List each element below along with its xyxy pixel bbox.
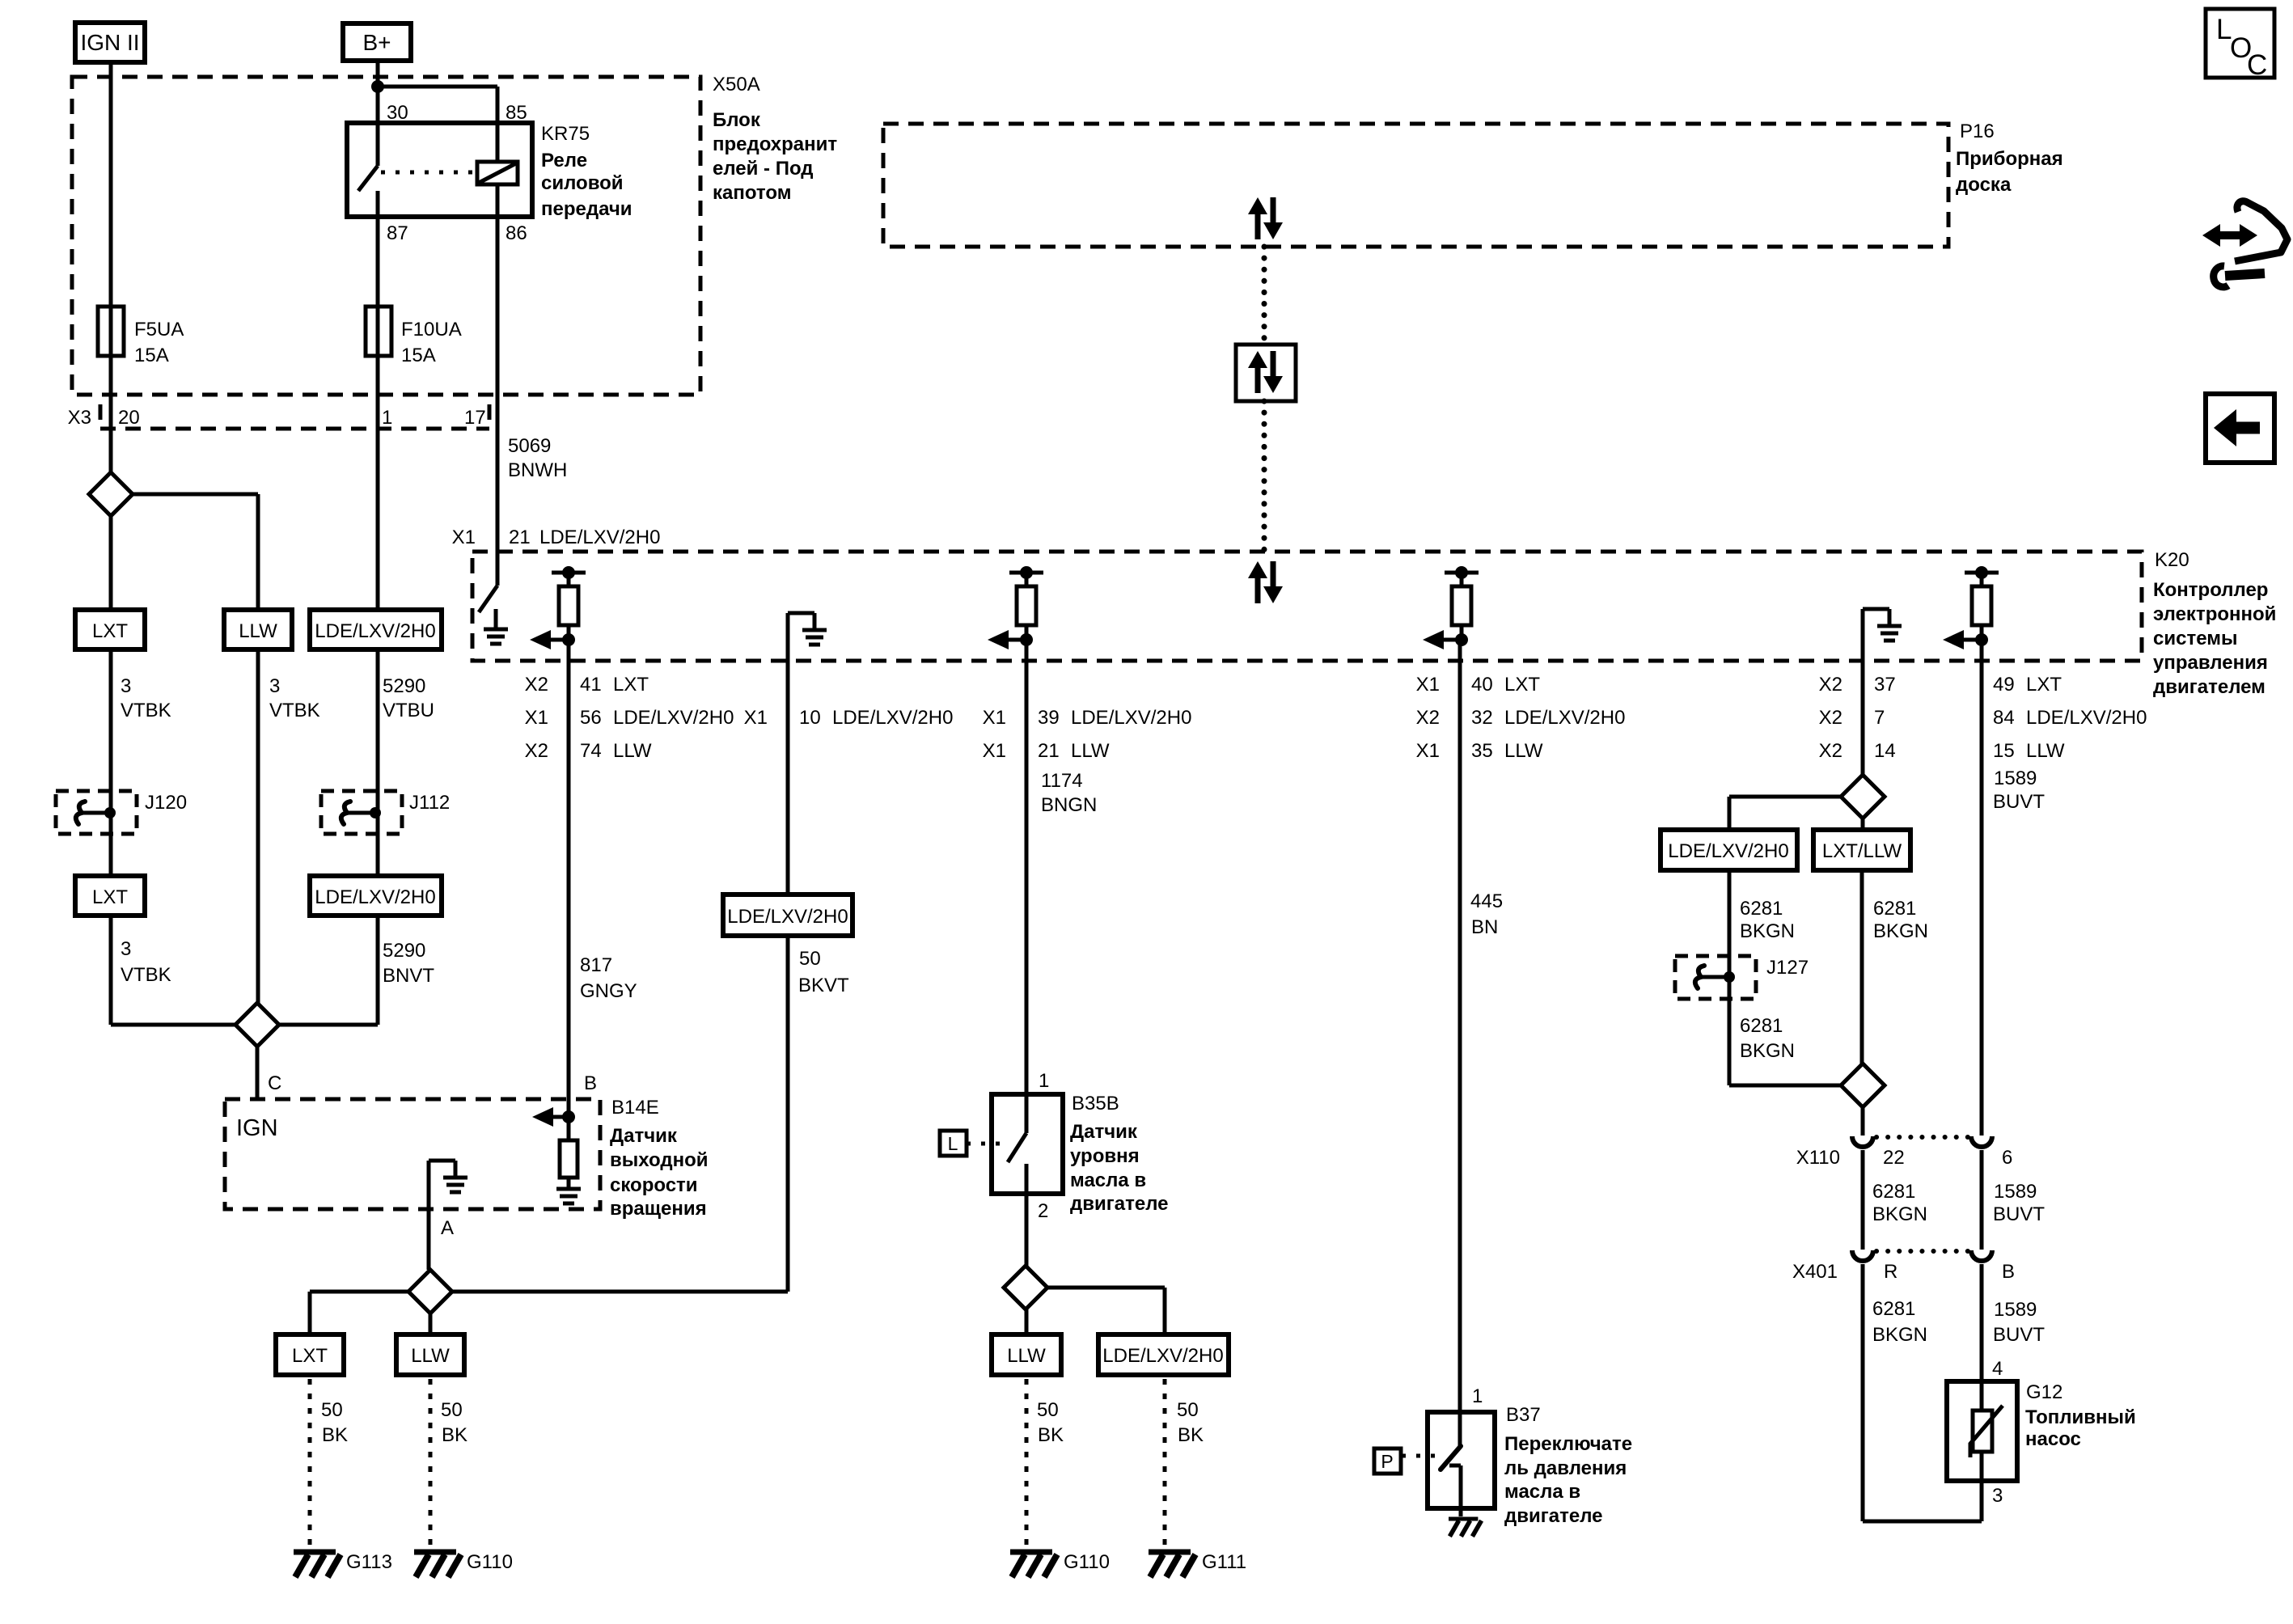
svg-text:40: 40 [1471, 674, 1493, 696]
svg-text:VTBK: VTBK [121, 964, 171, 986]
svg-text:G113: G113 [346, 1551, 392, 1573]
svg-text:LXT: LXT [1504, 674, 1540, 696]
svg-text:BNWH: BNWH [508, 459, 567, 481]
svg-text:двигателе: двигателе [1070, 1193, 1168, 1215]
svg-text:LXT: LXT [613, 674, 649, 696]
svg-text:выходной: выходной [610, 1149, 709, 1171]
svg-text:предохранит: предохранит [713, 133, 837, 155]
svg-text:X1: X1 [525, 707, 548, 729]
svg-text:Блок: Блок [713, 109, 761, 131]
svg-text:37: 37 [1874, 674, 1896, 696]
svg-text:50: 50 [1037, 1399, 1059, 1421]
svg-text:LDE/LXV/2H0: LDE/LXV/2H0 [832, 707, 953, 729]
svg-text:3: 3 [269, 675, 280, 697]
svg-text:X2: X2 [525, 674, 548, 696]
svg-text:1: 1 [1039, 1070, 1049, 1092]
svg-text:G12: G12 [2026, 1381, 2062, 1403]
svg-text:VTBU: VTBU [383, 700, 434, 721]
svg-text:J112: J112 [409, 792, 450, 814]
svg-text:85: 85 [506, 102, 527, 124]
svg-text:32: 32 [1471, 707, 1493, 729]
svg-text:817: 817 [580, 954, 612, 976]
svg-text:F5UA: F5UA [134, 319, 184, 340]
svg-text:LDE/LXV/2H0: LDE/LXV/2H0 [1102, 1345, 1223, 1367]
svg-text:445: 445 [1470, 890, 1503, 912]
svg-text:L: L [948, 1133, 958, 1154]
svg-text:LLW: LLW [613, 740, 652, 762]
svg-text:X1: X1 [1416, 740, 1440, 762]
svg-text:74: 74 [580, 740, 602, 762]
svg-text:передачи: передачи [541, 198, 632, 220]
svg-text:Переключате: Переключате [1504, 1433, 1632, 1455]
svg-text:LDE/LXV/2H0: LDE/LXV/2H0 [727, 906, 848, 928]
svg-text:BK: BK [1038, 1424, 1064, 1446]
svg-text:LXT: LXT [2026, 674, 2062, 696]
svg-text:P16: P16 [1960, 121, 1995, 142]
svg-text:уровня: уровня [1070, 1145, 1140, 1167]
svg-text:BKGN: BKGN [1872, 1203, 1927, 1225]
svg-text:LXT/LLW: LXT/LLW [1822, 840, 1902, 862]
svg-text:LLW: LLW [1071, 740, 1110, 762]
svg-text:BKGN: BKGN [1740, 1040, 1795, 1062]
svg-text:BUVT: BUVT [1993, 791, 2045, 813]
svg-text:39: 39 [1038, 707, 1060, 729]
svg-text:49: 49 [1993, 674, 2015, 696]
svg-text:Топливный: Топливный [2025, 1406, 2136, 1428]
svg-text:BKGN: BKGN [1740, 920, 1795, 942]
svg-text:насос: насос [2025, 1428, 2081, 1450]
svg-text:LLW: LLW [1504, 740, 1543, 762]
svg-text:R: R [1884, 1261, 1897, 1283]
svg-text:LDE/LXV/2H0: LDE/LXV/2H0 [2026, 707, 2147, 729]
svg-text:LDE/LXV/2H0: LDE/LXV/2H0 [315, 886, 435, 908]
svg-text:50: 50 [321, 1399, 343, 1421]
svg-text:X1: X1 [983, 740, 1006, 762]
svg-text:LLW: LLW [239, 620, 277, 642]
svg-text:1589: 1589 [1994, 1181, 2037, 1203]
svg-text:2: 2 [1038, 1200, 1048, 1222]
svg-text:BK: BK [1178, 1424, 1204, 1446]
svg-text:X3: X3 [68, 407, 91, 429]
svg-text:LLW: LLW [1007, 1345, 1046, 1367]
svg-text:B+: B+ [362, 30, 391, 55]
svg-text:масла в: масла в [1504, 1481, 1580, 1503]
svg-text:LDE/LXV/2H0: LDE/LXV/2H0 [1071, 707, 1191, 729]
svg-text:56: 56 [580, 707, 602, 729]
svg-text:доска: доска [1956, 174, 2012, 196]
svg-text:21: 21 [1038, 740, 1060, 762]
svg-text:B: B [2002, 1261, 2015, 1283]
svg-text:LXT: LXT [92, 620, 128, 642]
svg-text:1: 1 [1472, 1385, 1483, 1407]
svg-text:IGN II: IGN II [80, 30, 139, 55]
svg-text:J120: J120 [145, 792, 187, 814]
svg-text:C: C [268, 1072, 281, 1094]
svg-text:LDE/LXV/2H0: LDE/LXV/2H0 [1504, 707, 1625, 729]
svg-text:Датчик: Датчик [610, 1125, 678, 1147]
svg-text:C: C [2247, 49, 2267, 81]
svg-text:скорости: скорости [610, 1174, 698, 1196]
svg-text:X1: X1 [1416, 674, 1440, 696]
svg-text:84: 84 [1993, 707, 2015, 729]
svg-text:B: B [584, 1072, 597, 1094]
svg-text:G110: G110 [467, 1551, 513, 1573]
svg-text:6281: 6281 [1872, 1181, 1915, 1203]
svg-text:F10UA: F10UA [401, 319, 462, 340]
svg-text:BK: BK [322, 1424, 348, 1446]
svg-text:двигателе: двигателе [1504, 1505, 1602, 1527]
svg-text:X2: X2 [1819, 707, 1842, 729]
svg-text:елей - Под: елей - Под [713, 158, 814, 180]
svg-text:X110: X110 [1796, 1147, 1840, 1169]
svg-text:X2: X2 [1819, 740, 1842, 762]
svg-text:B14E: B14E [611, 1097, 659, 1119]
svg-text:6281: 6281 [1873, 898, 1916, 920]
svg-text:K20: K20 [2155, 549, 2189, 571]
svg-text:7: 7 [1874, 707, 1885, 729]
svg-text:VTBK: VTBK [121, 700, 171, 721]
svg-text:Контроллер: Контроллер [2153, 579, 2268, 601]
svg-text:X2: X2 [525, 740, 548, 762]
svg-text:6281: 6281 [1872, 1298, 1915, 1320]
svg-text:Датчик: Датчик [1070, 1121, 1138, 1143]
svg-text:22: 22 [1883, 1147, 1905, 1169]
svg-text:35: 35 [1471, 740, 1493, 762]
svg-text:10: 10 [799, 707, 821, 729]
svg-text:6281: 6281 [1740, 1015, 1783, 1037]
svg-text:масла в: масла в [1070, 1169, 1146, 1191]
svg-text:14: 14 [1874, 740, 1896, 762]
svg-text:20: 20 [118, 407, 140, 429]
svg-text:VTBK: VTBK [269, 700, 320, 721]
svg-text:G110: G110 [1064, 1551, 1110, 1573]
svg-text:LDE/LXV/2H0: LDE/LXV/2H0 [1668, 840, 1788, 862]
svg-text:LDE/LXV/2H0: LDE/LXV/2H0 [539, 527, 660, 548]
svg-text:BUVT: BUVT [1993, 1203, 2045, 1225]
svg-text:BN: BN [1471, 916, 1498, 938]
svg-text:IGN: IGN [236, 1115, 278, 1141]
svg-text:41: 41 [580, 674, 602, 696]
svg-text:86: 86 [506, 222, 527, 244]
svg-text:BKGN: BKGN [1872, 1324, 1927, 1346]
svg-text:LXT: LXT [92, 886, 128, 908]
svg-text:LXT: LXT [292, 1345, 328, 1367]
svg-text:4: 4 [1992, 1358, 2003, 1380]
svg-text:P: P [1381, 1451, 1393, 1472]
svg-text:LDE/LXV/2H0: LDE/LXV/2H0 [613, 707, 734, 729]
svg-text:Приборная: Приборная [1956, 148, 2063, 170]
svg-text:X2: X2 [1416, 707, 1440, 729]
svg-text:X2: X2 [1819, 674, 1842, 696]
svg-text:X1: X1 [744, 707, 768, 729]
svg-text:G111: G111 [1202, 1551, 1246, 1573]
svg-text:3: 3 [121, 938, 131, 960]
svg-text:ль давления: ль давления [1504, 1457, 1627, 1479]
svg-text:5290: 5290 [383, 940, 425, 962]
svg-text:GNGY: GNGY [580, 980, 637, 1002]
svg-text:BNGN: BNGN [1041, 794, 1097, 816]
svg-text:BKVT: BKVT [798, 975, 849, 996]
svg-text:BK: BK [442, 1424, 467, 1446]
svg-text:BNVT: BNVT [383, 965, 434, 987]
svg-text:KR75: KR75 [541, 123, 590, 145]
svg-text:BUVT: BUVT [1993, 1324, 2045, 1346]
svg-text:1589: 1589 [1994, 768, 2037, 789]
svg-text:6: 6 [2002, 1147, 2012, 1169]
svg-text:LDE/LXV/2H0: LDE/LXV/2H0 [315, 620, 435, 642]
svg-text:21: 21 [509, 527, 531, 548]
svg-text:5290: 5290 [383, 675, 425, 697]
svg-text:A: A [441, 1217, 454, 1239]
svg-text:X1: X1 [452, 527, 476, 548]
svg-text:B35B: B35B [1072, 1093, 1119, 1114]
svg-text:BKGN: BKGN [1873, 920, 1928, 942]
svg-text:X50A: X50A [713, 74, 760, 95]
svg-text:1: 1 [382, 407, 392, 429]
svg-text:1174: 1174 [1041, 770, 1083, 792]
svg-text:LLW: LLW [2026, 740, 2065, 762]
svg-text:двигателем: двигателем [2153, 676, 2266, 698]
svg-text:50: 50 [441, 1399, 463, 1421]
svg-text:Реле: Реле [541, 150, 587, 171]
svg-text:вращения: вращения [610, 1198, 707, 1220]
svg-text:6281: 6281 [1740, 898, 1783, 920]
svg-text:X1: X1 [983, 707, 1006, 729]
svg-text:LLW: LLW [411, 1345, 450, 1367]
svg-text:5069: 5069 [508, 435, 551, 457]
svg-text:B37: B37 [1506, 1404, 1541, 1426]
svg-text:3: 3 [121, 675, 131, 697]
svg-text:3: 3 [1992, 1485, 2003, 1507]
svg-text:50: 50 [799, 948, 821, 970]
svg-text:15A: 15A [401, 345, 436, 366]
svg-text:X401: X401 [1792, 1261, 1838, 1283]
svg-text:силовой: силовой [541, 172, 624, 194]
svg-text:15: 15 [1993, 740, 2015, 762]
svg-text:15A: 15A [134, 345, 169, 366]
svg-text:17: 17 [464, 407, 486, 429]
svg-text:1589: 1589 [1994, 1299, 2037, 1321]
svg-text:50: 50 [1177, 1399, 1199, 1421]
svg-text:J127: J127 [1766, 957, 1809, 979]
svg-text:системы: системы [2153, 628, 2237, 649]
svg-text:87: 87 [387, 222, 408, 244]
svg-text:30: 30 [387, 102, 408, 124]
svg-text:управления: управления [2153, 652, 2268, 674]
svg-text:капотом: капотом [713, 182, 791, 204]
svg-text:электронной: электронной [2153, 603, 2276, 625]
